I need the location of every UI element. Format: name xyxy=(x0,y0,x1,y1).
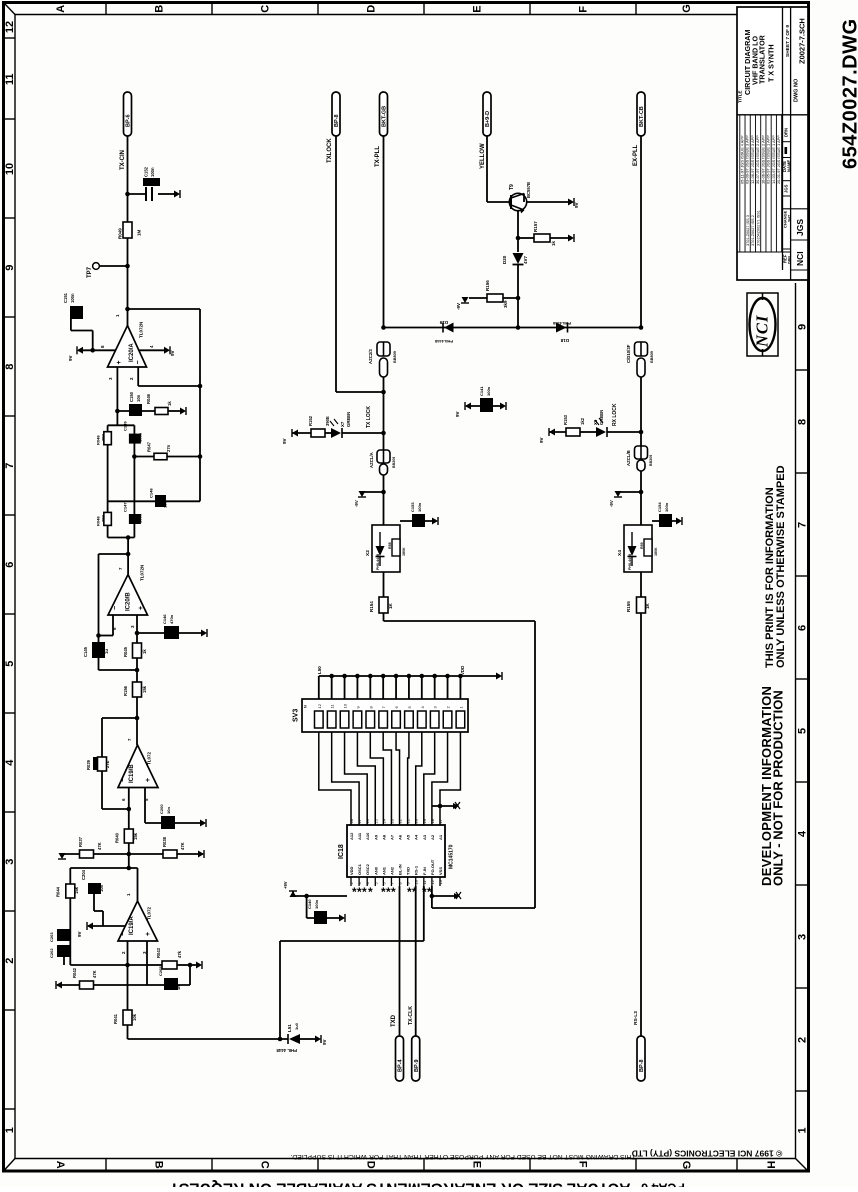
svg-text:C200: C200 xyxy=(159,804,164,814)
svg-text:1M: 1M xyxy=(137,229,142,236)
pad BP-6 TX-CIN xyxy=(124,92,132,136)
svg-text:R039: R039 xyxy=(86,759,91,770)
capacitor C152 branch xyxy=(128,193,147,195)
svg-text:TRANSLATOR: TRANSLATOR xyxy=(758,34,767,84)
svg-text:9V: 9V xyxy=(77,931,82,937)
svg-text:C148: C148 xyxy=(149,488,154,498)
svg-text:AZCL/A: AZCL/A xyxy=(369,452,374,468)
svg-text:PHIL4448: PHIL4448 xyxy=(376,554,380,570)
svg-text:DRN: DRN xyxy=(784,128,789,137)
svg-text:R58: R58 xyxy=(388,542,392,549)
svg-text:9V: 9V xyxy=(68,355,73,361)
svg-text:6: 6 xyxy=(4,562,16,568)
svg-text:NCI: NCI xyxy=(753,315,772,348)
svg-text:NCI: NCI xyxy=(795,251,805,266)
svg-text:2: 2 xyxy=(797,1037,809,1043)
svg-text:C152: C152 xyxy=(144,166,149,177)
svg-text:C203: C203 xyxy=(49,932,54,942)
svg-text:3: 3 xyxy=(4,859,16,865)
capacitor C147 xyxy=(129,514,141,524)
op-amp IC19/B xyxy=(136,718,138,745)
svg-text:47K: 47K xyxy=(97,842,102,850)
wire EX-PLL down xyxy=(640,136,642,328)
svg-text:4V7: 4V7 xyxy=(523,255,528,264)
svg-text:VDD: VDD xyxy=(349,866,354,875)
svg-text:6: 6 xyxy=(797,625,809,631)
svg-text:27: 27 xyxy=(357,818,362,823)
svg-text:C/D10/3F: C/D10/3F xyxy=(626,344,631,363)
svg-text:R044: R044 xyxy=(56,886,61,897)
svg-text:390E: 390E xyxy=(325,416,330,426)
svg-text:26: 26 xyxy=(365,818,370,823)
svg-text:+: + xyxy=(116,360,123,364)
svg-text:1K: 1K xyxy=(645,602,650,609)
svg-text:SV3: SV3 xyxy=(293,709,300,722)
svg-text:SHT: SHT xyxy=(788,214,792,222)
resistor R157 branch xyxy=(516,236,521,241)
svg-text:−: − xyxy=(120,778,127,782)
minus9v branch right xyxy=(639,490,644,495)
svg-text:100n: 100n xyxy=(70,293,75,303)
svg-text:DWG NO: DWG NO xyxy=(794,78,800,102)
revision table xyxy=(739,115,741,252)
svg-text:OSC1: OSC1 xyxy=(357,863,362,875)
svg-text:D: D xyxy=(365,1161,377,1169)
wire B+9-D down xyxy=(486,136,488,202)
svg-text:YELLOW: YELLOW xyxy=(480,143,486,169)
svg-text:*: * xyxy=(391,885,396,899)
feedback wire IC20/A xyxy=(128,308,201,310)
svg-text:R157: R157 xyxy=(533,221,538,232)
wire pad1 down xyxy=(127,136,129,194)
capacitor C149 xyxy=(129,434,141,444)
wire input pin3 xyxy=(116,367,118,411)
svg-text:2: 2 xyxy=(4,958,16,964)
svg-text:D18: D18 xyxy=(560,338,569,343)
svg-text:100n: 100n xyxy=(664,502,669,512)
emitter wire xyxy=(523,194,525,203)
svg-text:8: 8 xyxy=(4,364,16,370)
svg-text:C: C xyxy=(259,1161,271,1169)
collector wire xyxy=(517,211,519,252)
svg-text:R043: R043 xyxy=(156,947,161,958)
svg-text:GREEN: GREEN xyxy=(346,412,351,427)
svg-text:BB809: BB809 xyxy=(393,351,397,363)
svg-text:5: 5 xyxy=(4,661,16,667)
NCI logo xyxy=(747,293,778,356)
node txlock xyxy=(381,390,386,395)
title block xyxy=(737,7,808,280)
feedback IC19/B R039 xyxy=(102,717,137,719)
svg-text:12: 12 xyxy=(4,21,16,33)
svg-text:-9V: -9V xyxy=(354,500,359,507)
svg-text:+: + xyxy=(145,932,152,936)
svg-text:E: E xyxy=(471,1161,483,1168)
svg-text:180K: 180K xyxy=(654,547,658,556)
svg-text:X2: X2 xyxy=(365,550,371,556)
bus wire xyxy=(384,327,642,329)
svg-text:TXLOCK: TXLOCK xyxy=(327,138,333,163)
svg-text:−: − xyxy=(120,932,127,936)
resistor R156 branch xyxy=(516,296,521,301)
wire xyxy=(127,238,129,266)
svg-text:1: 1 xyxy=(797,1127,809,1133)
varicap AZCL/A xyxy=(383,433,385,450)
svg-text:BP-6: BP-6 xyxy=(126,114,132,127)
wire loop to X19 xyxy=(384,620,536,622)
svg-text:17: 17 xyxy=(438,818,443,823)
svg-text:3k9: 3k9 xyxy=(503,300,508,308)
svg-text:AN0: AN0 xyxy=(373,866,378,875)
svg-text:H: H xyxy=(765,1161,777,1169)
svg-text:ACTUAL SIZE OR ENLARGEMENTS AV: ACTUAL SIZE OR ENLARGEMENTS AVAILABLE ON… xyxy=(169,1180,631,1188)
svg-text:-9V: -9V xyxy=(609,500,614,507)
svg-text:1n: 1n xyxy=(176,985,181,990)
svg-text:24: 24 xyxy=(381,818,386,823)
svg-text:1: 1 xyxy=(4,1127,16,1133)
svg-text:11: 11 xyxy=(4,73,16,85)
svg-text:-9V: -9V xyxy=(456,303,461,310)
svg-text:NAME: NAME xyxy=(786,159,791,172)
svg-text:A1: A1 xyxy=(438,834,443,840)
svg-text:C147: C147 xyxy=(123,502,128,512)
svg-text:TL072: TL072 xyxy=(147,751,152,765)
wire TX-CLK xyxy=(415,886,417,1036)
pad TXD xyxy=(396,1036,404,1081)
wire xyxy=(127,194,129,222)
svg-text:THIS DRAWING MUST NOT BE USED: THIS DRAWING MUST NOT BE USED FOR ANY PU… xyxy=(290,1153,635,1160)
svg-text:A4: A4 xyxy=(414,834,419,840)
svg-text:PHIL 4448: PHIL 4448 xyxy=(276,1048,297,1053)
svg-text:+: + xyxy=(138,606,145,610)
svg-text:1k: 1k xyxy=(142,649,147,654)
svg-text:VSS: VSS xyxy=(438,867,443,875)
svg-text:R154: R154 xyxy=(369,601,374,612)
branch C148 xyxy=(108,500,200,502)
svg-text:RX LOCK: RX LOCK xyxy=(612,403,618,426)
svg-text:E: E xyxy=(472,5,484,12)
svg-text:TX-PLL: TX-PLL xyxy=(375,146,381,167)
ground arrow c152 xyxy=(174,191,180,198)
zener D20 xyxy=(513,253,524,264)
svg-text:18: 18 xyxy=(430,818,435,823)
varicap D15 right xyxy=(635,342,648,356)
op-amp IC19/A xyxy=(118,901,158,941)
test point TP7 xyxy=(93,263,100,270)
svg-text:5: 5 xyxy=(797,728,809,734)
svg-text:C204: C204 xyxy=(81,869,86,880)
svg-text:L50: L50 xyxy=(317,666,322,674)
svg-text:A2: A2 xyxy=(430,834,435,840)
svg-text:9V: 9V xyxy=(322,1039,327,1045)
svg-text:BKT-CB: BKT-CB xyxy=(639,106,645,127)
svg-text:R155: R155 xyxy=(626,601,631,612)
svg-text:3: 3 xyxy=(797,934,809,940)
svg-text:C140: C140 xyxy=(307,899,312,909)
svg-text:3701-Z0027 ISS 2: 3701-Z0027 ISS 2 xyxy=(751,215,755,246)
varicap D14 left xyxy=(377,342,390,356)
svg-text:B: B xyxy=(153,1161,165,1169)
svg-text:BL-IN: BL-IN xyxy=(398,864,403,875)
svg-text:C202: C202 xyxy=(49,948,54,958)
wire to IC20/B xyxy=(127,538,129,575)
svg-text:100n: 100n xyxy=(138,513,143,523)
svg-text:TXD: TXD xyxy=(391,1014,397,1027)
svg-text:100n: 100n xyxy=(417,502,422,512)
svg-text:15k: 15k xyxy=(142,685,147,693)
svg-text:TXD: TXD xyxy=(406,867,411,875)
svg-text:BP-8: BP-8 xyxy=(639,1059,645,1072)
svg-text:R59: R59 xyxy=(640,542,644,549)
svg-text:*: * xyxy=(362,885,367,899)
capacitor C204 branch xyxy=(88,883,101,894)
svg-text:© 1997 NCI ELECTRONICS (PTY): © 1997 NCI ELECTRONICS (PTY) LTD xyxy=(632,1149,783,1159)
R042 line xyxy=(57,984,147,986)
svg-text:IC20/B: IC20/B xyxy=(126,592,132,611)
svg-text:BP-9: BP-9 xyxy=(414,1059,420,1072)
svg-text:4: 4 xyxy=(797,830,809,837)
svg-text:1k: 1k xyxy=(167,401,172,406)
svg-text:47K: 47K xyxy=(180,842,185,850)
op-amp IC20/B xyxy=(108,575,148,616)
svg-text:A: A xyxy=(55,5,67,13)
resistor R154 xyxy=(383,572,385,597)
svg-text:A9: A9 xyxy=(373,834,378,840)
svg-text:ONLY UNLESS OTHERWISE STAMPED: ONLY UNLESS OTHERWISE STAMPED xyxy=(775,465,787,668)
ladder network R048 R047 C147-C150 xyxy=(108,424,135,426)
svg-text:BB809: BB809 xyxy=(650,351,654,363)
svg-text:370154Z0027/1 ISS1: 370154Z0027/1 ISS1 xyxy=(756,210,760,246)
svg-text:+9V: +9V xyxy=(283,881,288,889)
svg-text:BB209: BB209 xyxy=(392,457,396,468)
svg-text:10k: 10k xyxy=(132,1013,137,1021)
svg-text:EX-PLL: EX-PLL xyxy=(633,144,639,166)
svg-text:X8: X8 xyxy=(593,419,598,425)
branch C200 xyxy=(144,788,146,824)
feedback IC20/B C145 xyxy=(99,553,129,555)
svg-text:R041: R041 xyxy=(113,1013,118,1024)
wire loop 941 xyxy=(423,886,425,941)
svg-text:A3: A3 xyxy=(422,834,427,840)
svg-text:VDD: VDD xyxy=(460,666,465,675)
svg-text:A7: A7 xyxy=(389,834,394,840)
svg-text:R042: R042 xyxy=(72,967,77,978)
svg-text:1k: 1k xyxy=(551,240,556,246)
svg-text:JGS: JGS xyxy=(795,219,805,236)
svg-text:23: 23 xyxy=(389,818,394,823)
svg-text:A12: A12 xyxy=(349,832,354,840)
corner diagonals xyxy=(4,3,15,15)
resistor R041 xyxy=(127,965,129,1010)
resistor R155 xyxy=(640,572,642,597)
svg-text:MC145170: MC145170 xyxy=(449,844,455,869)
svg-text:IC19/A: IC19/A xyxy=(129,916,135,935)
supply branch left C151 xyxy=(78,349,116,351)
svg-text:180K: 180K xyxy=(402,547,406,556)
diode D18 xyxy=(556,323,567,333)
svg-text:20: 20 xyxy=(414,818,419,823)
svg-text:TL072N: TL072N xyxy=(140,565,145,581)
wire TX-PLL down xyxy=(383,136,385,328)
svg-text:1u0: 1u0 xyxy=(294,1022,299,1030)
svg-text:TP7: TP7 xyxy=(87,266,93,278)
svg-text:C: C xyxy=(260,5,272,13)
svg-text:9V: 9V xyxy=(282,438,287,444)
svg-text:10n: 10n xyxy=(166,807,171,814)
wire TXD xyxy=(399,886,401,1036)
svg-text:PHIL4448: PHIL4448 xyxy=(628,554,632,570)
svg-text:F-IN: F-IN xyxy=(422,867,427,875)
svg-text:B+9-D: B+9-D xyxy=(485,111,491,127)
op-amp IC20/A xyxy=(108,326,147,368)
wire EX-PLL long xyxy=(640,613,642,1036)
svg-text:3701-Z0027 ISS 3: 3701-Z0027 ISS 3 xyxy=(746,215,750,246)
svg-text:C149: C149 xyxy=(123,421,128,431)
inputs IC19/A xyxy=(127,941,129,965)
svg-text:PCA4 6: PCA4 6 xyxy=(641,1181,685,1188)
svg-text:C141: C141 xyxy=(479,386,484,396)
svg-text:G: G xyxy=(681,4,693,13)
svg-text:20-01-97 JGS ISSUE 1 APP: 20-01-97 JGS ISSUE 1 APP xyxy=(776,135,781,184)
svg-text:9V: 9V xyxy=(539,437,544,443)
svg-text:DRN: DRN xyxy=(787,256,791,264)
pad BP-8 TXLOCK xyxy=(332,92,340,136)
svg-text:+: + xyxy=(145,778,152,782)
svg-text:R047: R047 xyxy=(147,441,152,452)
svg-text:28: 28 xyxy=(349,818,354,823)
svg-text:100n: 100n xyxy=(314,899,319,909)
svg-text:R153: R153 xyxy=(563,414,568,425)
cap C153 branch xyxy=(400,520,435,522)
svg-text:21: 21 xyxy=(406,818,411,823)
led X8 chain xyxy=(549,429,555,436)
diode D19 xyxy=(444,323,454,333)
svg-text:22: 22 xyxy=(398,818,403,823)
feedback IC19/A xyxy=(70,867,137,869)
svg-text:FO-OUT: FO-OUT xyxy=(430,859,435,875)
svg-text:9V: 9V xyxy=(170,350,175,356)
svg-text:1u: 1u xyxy=(104,649,109,654)
svg-text:C145: C145 xyxy=(83,646,88,657)
svg-text:F: F xyxy=(577,1161,589,1168)
varicap AZCL/B xyxy=(640,432,642,446)
svg-text:39K: 39K xyxy=(100,434,105,441)
minus9v branch left xyxy=(381,490,386,495)
resistor R049 xyxy=(123,222,132,238)
reset pull branch xyxy=(430,894,435,899)
svg-text:X4: X4 xyxy=(617,550,623,556)
svg-text:10: 10 xyxy=(343,703,348,708)
svg-text:9: 9 xyxy=(797,324,809,330)
resistor R156b xyxy=(136,670,138,682)
wire xyxy=(116,411,118,425)
svg-text:F: F xyxy=(578,6,590,13)
bias line 47K xyxy=(127,852,132,857)
svg-text:PHIL4448: PHIL4448 xyxy=(434,339,453,344)
svg-text:39K: 39K xyxy=(100,515,105,522)
svg-text:PHIL4448: PHIL4448 xyxy=(552,321,571,326)
svg-text:L51: L51 xyxy=(287,1024,292,1032)
svg-text:R156: R156 xyxy=(123,685,128,696)
connector SV3 xyxy=(319,675,500,677)
svg-text:A6: A6 xyxy=(398,834,403,840)
svg-text:10n: 10n xyxy=(136,394,141,402)
svg-text:7: 7 xyxy=(4,463,16,469)
reset branch upper xyxy=(438,804,443,809)
resistor R045 xyxy=(136,633,138,643)
svg-text:19: 19 xyxy=(422,818,427,823)
svg-text:C151: C151 xyxy=(63,292,68,303)
svg-text:1k2: 1k2 xyxy=(580,417,585,425)
svg-text:D20: D20 xyxy=(502,255,507,264)
svg-text:IC20/A: IC20/A xyxy=(129,343,135,362)
svg-text:A10: A10 xyxy=(365,832,370,840)
electrolytics C202 C203 xyxy=(57,929,71,941)
node j2 xyxy=(125,264,130,269)
node j3 xyxy=(125,307,130,312)
svg-text:A5: A5 xyxy=(406,834,411,840)
svg-text:15k: 15k xyxy=(74,886,79,894)
svg-text:BP-4: BP-4 xyxy=(398,1059,404,1072)
svg-text:BC557B: BC557B xyxy=(526,182,531,198)
svg-text:T X SYNTH: T X SYNTH xyxy=(767,44,776,82)
wire xyxy=(128,809,130,868)
svg-text:R046: R046 xyxy=(146,393,151,404)
svg-text:C153: C153 xyxy=(410,502,415,512)
svg-text:10n: 10n xyxy=(163,501,168,508)
microcontroller X19 xyxy=(347,825,445,877)
svg-text:9: 9 xyxy=(4,265,16,271)
wire TXLOCK down xyxy=(335,136,337,392)
svg-text:BP-8: BP-8 xyxy=(334,114,340,127)
svg-text:ONLY - NOT FOR PRODUCTION: ONLY - NOT FOR PRODUCTION xyxy=(771,690,786,886)
ladder bottom xyxy=(108,537,135,539)
svg-text:G: G xyxy=(680,1161,692,1170)
svg-text:RS-L3: RS-L3 xyxy=(633,1011,639,1025)
svg-text:IC18: IC18 xyxy=(338,844,345,859)
svg-text:470n: 470n xyxy=(169,614,174,624)
svg-text:A11: A11 xyxy=(357,832,362,840)
svg-text:654Z0027.DWG: 654Z0027.DWG xyxy=(840,18,858,169)
svg-text:OSC2: OSC2 xyxy=(365,863,370,875)
svg-text:R156: R156 xyxy=(485,280,490,291)
svg-text:15k: 15k xyxy=(133,832,138,840)
svg-text:B: B xyxy=(154,5,166,13)
svg-text:D: D xyxy=(366,5,378,13)
node ic19b in xyxy=(135,716,140,721)
decoupling cap C141 xyxy=(466,405,504,407)
svg-text:−: − xyxy=(135,360,142,364)
pad BKT-GB TX-PLL xyxy=(380,92,388,136)
pad EX bottom xyxy=(637,1036,645,1081)
svg-text:12: 12 xyxy=(317,703,322,708)
branch R047 xyxy=(132,454,137,459)
lowpass R046 C150 xyxy=(115,409,120,414)
pll box X4 xyxy=(624,525,652,572)
C205 branch xyxy=(147,984,190,986)
svg-text:100n: 100n xyxy=(138,432,143,442)
svg-text:R040: R040 xyxy=(115,832,120,843)
svg-text:C205: C205 xyxy=(158,966,163,976)
resistor R040 xyxy=(124,829,133,843)
svg-text:1K: 1K xyxy=(388,602,393,609)
svg-text:A8: A8 xyxy=(381,834,386,840)
svg-text:X7: X7 xyxy=(340,421,345,427)
svg-text:47K: 47K xyxy=(92,970,97,978)
svg-text:TITLE: TITLE xyxy=(738,91,743,104)
svg-text:AZCL/B: AZCL/B xyxy=(626,450,631,466)
svg-text:N: N xyxy=(304,705,308,708)
